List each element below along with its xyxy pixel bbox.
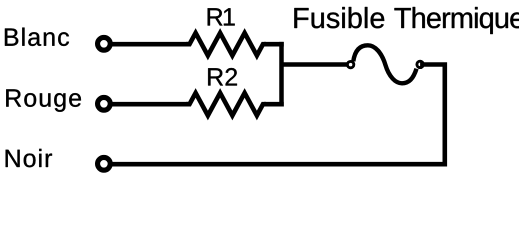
wire xyxy=(104,65,445,165)
label R1 xyxy=(208,8,235,25)
resistor R2 xyxy=(186,93,266,116)
label R2 xyxy=(208,68,237,85)
label Fusible Thermique xyxy=(294,7,519,34)
label R1 foot serif of 1 xyxy=(225,24,233,26)
wire xyxy=(282,62,351,67)
wire xyxy=(264,102,284,107)
fuse F1 thermal xyxy=(347,45,423,83)
wire xyxy=(279,42,284,107)
wire xyxy=(264,42,284,47)
node Rouge terminal xyxy=(98,97,111,110)
label Blanc xyxy=(5,28,69,46)
node Blanc terminal xyxy=(98,37,111,50)
label Rouge xyxy=(6,89,81,111)
node Noir terminal xyxy=(98,157,111,170)
wire xyxy=(104,42,188,47)
label Noir xyxy=(6,149,52,167)
wire xyxy=(104,102,188,107)
resistor R1 xyxy=(186,33,266,56)
